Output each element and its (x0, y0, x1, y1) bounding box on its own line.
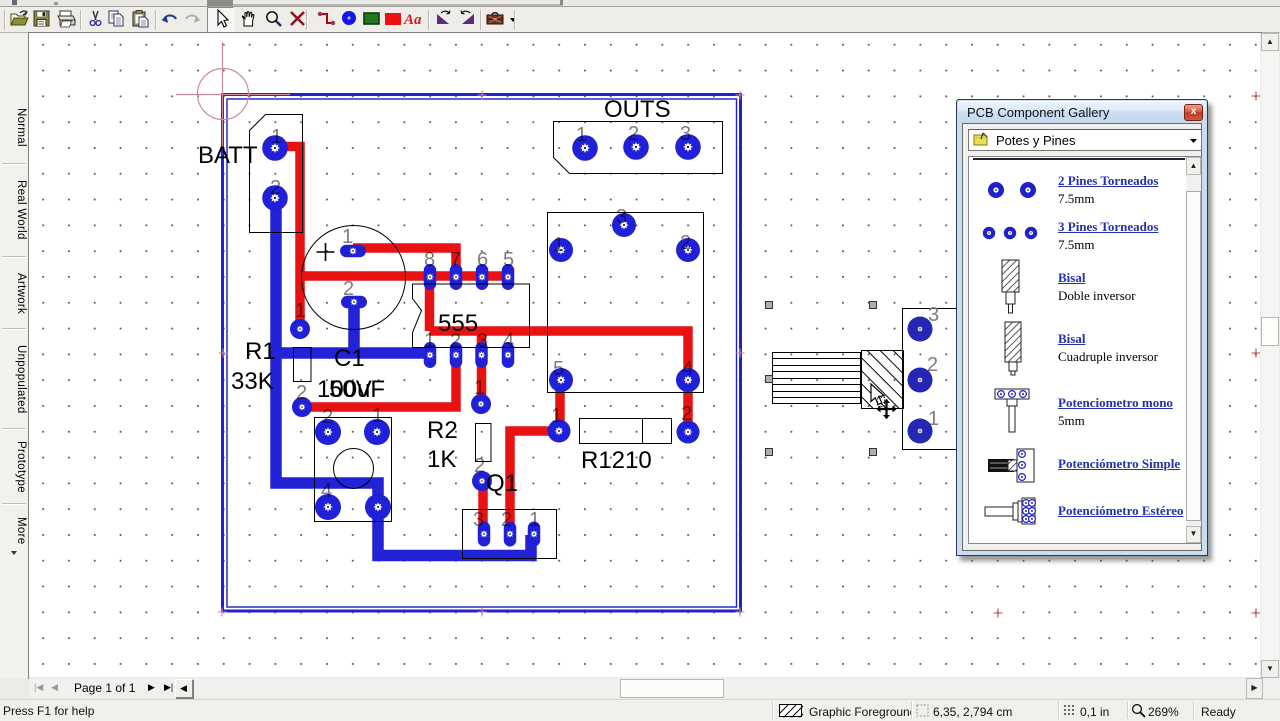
svg-text:3: 3 (616, 206, 627, 228)
svg-text:C1: C1 (334, 345, 365, 372)
svg-text:1: 1 (271, 126, 282, 148)
svg-text:1: 1 (553, 234, 564, 256)
svg-text:2: 2 (628, 123, 639, 145)
svg-text:2: 2 (296, 382, 307, 404)
svg-text:2: 2 (681, 403, 692, 425)
svg-text:1: 1 (424, 330, 435, 352)
svg-text:33K: 33K (231, 368, 274, 395)
svg-text:2: 2 (270, 177, 281, 199)
svg-text:OUTS: OUTS (604, 96, 671, 123)
svg-text:R1210: R1210 (581, 447, 652, 474)
svg-text:4: 4 (321, 480, 332, 502)
svg-text:1: 1 (551, 405, 562, 427)
svg-text:3: 3 (473, 509, 484, 531)
svg-text:3: 3 (680, 123, 691, 145)
svg-text:1K: 1K (427, 446, 456, 473)
svg-text:2: 2 (343, 278, 354, 300)
svg-text:2: 2 (680, 232, 691, 254)
svg-text:5: 5 (503, 249, 514, 271)
svg-text:1: 1 (576, 124, 587, 146)
svg-text:1: 1 (295, 300, 306, 322)
svg-text:6: 6 (477, 249, 488, 271)
svg-text:2: 2 (474, 455, 485, 477)
svg-text:1: 1 (342, 226, 353, 248)
svg-text:Q1: Q1 (486, 470, 518, 497)
svg-text:3: 3 (477, 330, 488, 352)
svg-text:4: 4 (682, 358, 693, 380)
svg-text:555: 555 (438, 310, 478, 337)
svg-text:5: 5 (553, 358, 564, 380)
svg-text:1: 1 (372, 405, 383, 427)
svg-text:BATT: BATT (198, 142, 258, 169)
svg-text:4: 4 (503, 330, 514, 352)
svg-text:Aa: Aa (403, 12, 422, 28)
svg-text:1: 1 (529, 509, 540, 531)
svg-text:2: 2 (501, 509, 512, 531)
svg-text:1: 1 (474, 377, 485, 399)
svg-text:2: 2 (322, 406, 333, 428)
svg-text:R1: R1 (245, 338, 276, 365)
svg-text:50V: 50V (329, 376, 372, 403)
svg-text:7: 7 (450, 249, 461, 271)
svg-text:R2: R2 (427, 417, 458, 444)
svg-text:8: 8 (424, 249, 435, 271)
